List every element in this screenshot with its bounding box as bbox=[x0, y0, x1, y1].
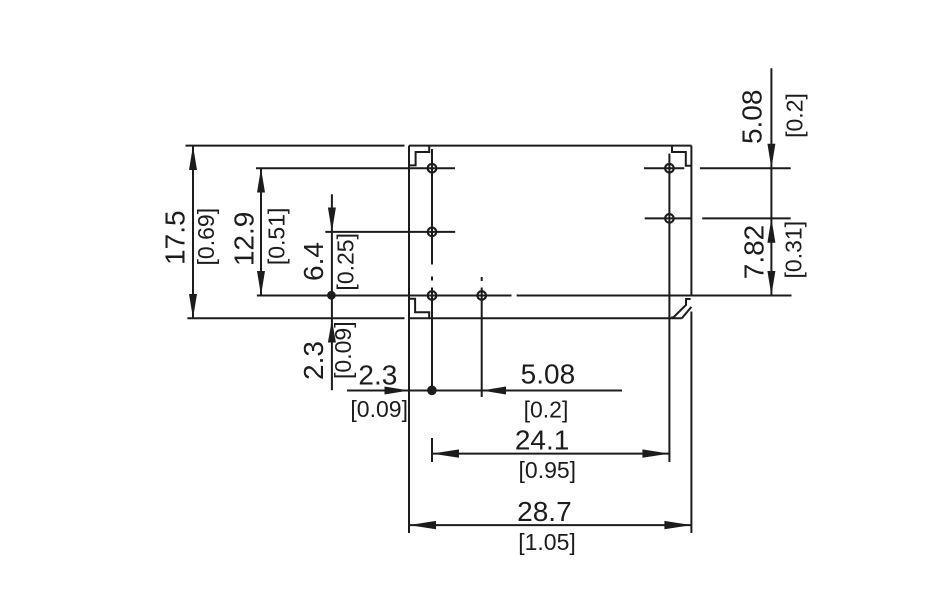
pin circle right column row 1 bbox=[665, 164, 674, 173]
pin column 1 centerline dot bbox=[431, 277, 433, 281]
arrowhead 28.7 right bbox=[664, 521, 691, 529]
arrowhead 2.3 horizontal (points right at left edge) bbox=[385, 387, 410, 395]
svg-text:[0.09]: [0.09] bbox=[350, 396, 408, 422]
right pin row 2 crosshair bbox=[645, 217, 691, 219]
right pin row 1 extension line to 5.08 dim bbox=[700, 167, 791, 169]
pin column 2 (middle) centerline bbox=[481, 288, 483, 398]
arrowhead 24.1 right bbox=[642, 449, 669, 457]
svg-text:2.3: 2.3 bbox=[298, 341, 329, 380]
dimension 24.1 line bbox=[432, 453, 669, 455]
dimension 12.9 line bbox=[260, 168, 262, 295]
pin column 3 (right) centerline (extends down to 24.1 dim) bbox=[668, 154, 670, 462]
bottom pin row centerline (right part, extends to 7.82 dim) bbox=[517, 295, 792, 297]
arrowhead 7.82 bottom (points down at bottom pin row) bbox=[767, 271, 775, 295]
top edge extension line to 17.5 dim bbox=[186, 145, 405, 147]
corner notch top-left bbox=[409, 146, 429, 166]
arrowhead 5.08 right (points down at pin row 1) bbox=[767, 144, 775, 168]
dimension 28.7 line bbox=[409, 524, 691, 526]
arrowhead 5.08 horizontal (points left at middle pin column) bbox=[482, 387, 506, 395]
svg-text:12.9: 12.9 bbox=[228, 212, 259, 267]
pin row 1 centerline (left) bbox=[256, 167, 455, 169]
right pin row 2 extension line to 7.82 dim bbox=[702, 217, 791, 219]
svg-text:[0.25]: [0.25] bbox=[333, 233, 359, 291]
dimension 24.1 left extension line bbox=[431, 438, 433, 462]
svg-text:7.82: 7.82 bbox=[738, 225, 769, 280]
corner notch top-right bbox=[672, 146, 691, 166]
svg-text:[0.31]: [0.31] bbox=[781, 221, 807, 279]
pin column 1 centerline lower segment (ends at 2.3 dim dot) bbox=[431, 288, 433, 391]
right edge extension line down to 28.7 dim bbox=[690, 312, 692, 534]
arrowhead 28.7 left bbox=[409, 521, 436, 529]
corner notch bottom-right chamfer inner channel bbox=[672, 299, 690, 318]
svg-text:[0.69]: [0.69] bbox=[193, 208, 219, 266]
arrowhead 17.5 top bbox=[189, 146, 197, 170]
svg-text:[0.51]: [0.51] bbox=[264, 208, 290, 266]
pin circle left column row 2 bbox=[428, 228, 437, 237]
svg-text:[1.05]: [1.05] bbox=[518, 529, 576, 555]
pin circle left column bottom row bbox=[428, 291, 437, 300]
pin circle right column row 2 bbox=[665, 214, 674, 223]
arrowhead 2.3 vertical (points up at body bottom edge) bbox=[328, 320, 336, 343]
svg-text:24.1: 24.1 bbox=[515, 424, 570, 455]
dimension 5.08 right vertical line bbox=[770, 68, 772, 295]
svg-text:28.7: 28.7 bbox=[517, 496, 572, 527]
svg-text:[0.09]: [0.09] bbox=[330, 321, 356, 379]
arrowhead 7.82 top (points up at pin row 2) bbox=[767, 218, 775, 242]
corner notch bottom-right chamfer outer diagonal bbox=[682, 307, 692, 318]
arrowhead 12.9 bottom bbox=[257, 271, 265, 296]
svg-text:6.4: 6.4 bbox=[298, 242, 329, 281]
bottom pin row centerline (left part) bbox=[257, 295, 512, 297]
pin circle left column row 1 bbox=[428, 164, 437, 173]
dimension 2.3/5.08 horizontal line bbox=[347, 390, 622, 392]
svg-text:5.08: 5.08 bbox=[736, 90, 767, 145]
corner notch bottom-left bbox=[409, 299, 429, 319]
svg-text:[0.2]: [0.2] bbox=[524, 396, 569, 422]
svg-text:[0.2]: [0.2] bbox=[782, 93, 808, 138]
relay body outline bottom edge (with extension left to 17.5 dim) bbox=[187, 317, 404, 319]
dimension 2.3 horizontal origin dot bbox=[427, 386, 437, 396]
svg-text:5.08: 5.08 bbox=[521, 358, 576, 389]
pin column 2 (middle) centerline dot bbox=[481, 277, 483, 281]
svg-text:[0.95]: [0.95] bbox=[519, 457, 577, 483]
dimension 6.4 / 2.3 vertical line bbox=[331, 194, 333, 390]
right pin row 1 crosshair bbox=[644, 167, 684, 169]
arrowhead 12.9 top bbox=[257, 168, 265, 192]
svg-text:17.5: 17.5 bbox=[160, 210, 191, 265]
relay body outline left edge (with extension down to 28.7 dim) bbox=[408, 146, 410, 533]
pin circle middle bottom row bbox=[477, 291, 486, 300]
svg-text:2.3: 2.3 bbox=[358, 360, 397, 391]
arrowhead 17.5 bottom bbox=[189, 294, 197, 318]
dimension 6.4 origin dot bbox=[327, 291, 336, 300]
arrowhead 6.4 (points down at pin row 2) bbox=[328, 208, 336, 232]
pin row 2 centerline (left) bbox=[325, 231, 455, 233]
relay body outline top edge bbox=[409, 145, 691, 147]
relay body outline right edge bbox=[690, 146, 692, 297]
arrowhead 24.1 left bbox=[432, 449, 459, 457]
pin column 1 centerline upper segment bbox=[431, 149, 433, 265]
dimension 17.5 line bbox=[192, 146, 194, 319]
